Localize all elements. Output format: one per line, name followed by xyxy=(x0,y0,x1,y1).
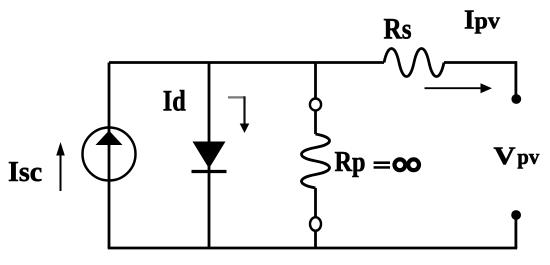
current source arrow (up) xyxy=(96,131,123,146)
wire: Rp bottom circle to bottom bus xyxy=(314,231,317,248)
current source Isc (circle) xyxy=(83,128,136,181)
wire: left branch vertical xyxy=(108,63,111,249)
Isc direction arrow (up) xyxy=(60,153,62,191)
wire: bottom bus xyxy=(108,247,518,250)
wire: bottom right stub to bottom terminal xyxy=(515,214,518,248)
Id current arrow (hook down) xyxy=(228,96,245,98)
resistor Rp (vertical squiggle) xyxy=(301,134,329,188)
wire: diode branch vertical xyxy=(208,63,211,249)
wire: resistor to Rp bottom circle xyxy=(314,188,317,217)
svg-text:Isc: Isc xyxy=(8,157,42,188)
svg-text:Rs: Rs xyxy=(384,13,412,46)
resistor Rs (horizontal squiggle) xyxy=(384,48,444,76)
svg-text:Id: Id xyxy=(163,85,186,118)
diode D (anode triangle) xyxy=(193,142,226,169)
svg-text:pv: pv xyxy=(517,144,540,169)
node: Rp top terminal circle xyxy=(310,99,321,111)
node: top output terminal dot xyxy=(511,94,521,104)
svg-text:Rp: Rp xyxy=(335,147,366,178)
wire: Rp branch upper segment xyxy=(314,63,317,99)
diode D cathode bar xyxy=(192,170,227,173)
wire: Rp circle to resistor xyxy=(314,111,317,135)
infinity symbol (two circles) xyxy=(395,159,406,170)
svg-text:Ipv: Ipv xyxy=(464,4,500,34)
equals sign xyxy=(374,161,390,164)
Ipv current arrow (right) xyxy=(425,87,482,89)
node: bottom output terminal dot xyxy=(511,210,521,220)
node: Rp bottom terminal circle xyxy=(310,217,321,231)
wire: top bus from Rs to right corner, down to top terminal xyxy=(444,63,516,97)
wire: top bus from left corner to Rs xyxy=(109,61,384,64)
svg-text:V: V xyxy=(494,141,517,170)
